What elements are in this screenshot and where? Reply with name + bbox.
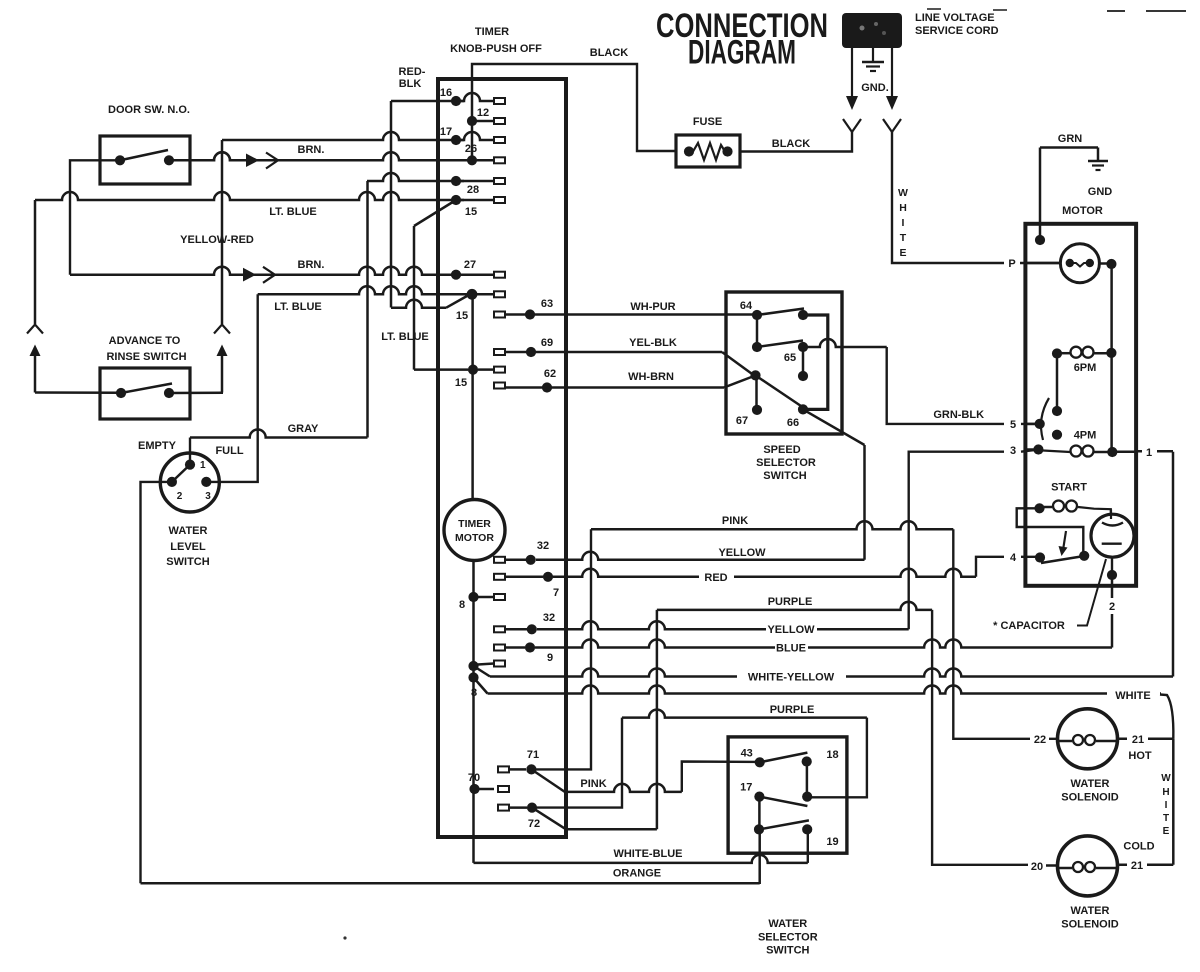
svg-text:32: 32 [537,540,549,552]
left riser to rinse switch [34,200,37,324]
title CONNECTION DIAGRAM [656,7,828,72]
ground symbol at motor [1088,148,1113,199]
capacitor pointer [993,559,1106,632]
svg-text:6PM: 6PM [1074,362,1097,374]
svg-text:17: 17 [440,126,452,138]
svg-text:1: 1 [200,460,206,471]
wire PINK timer 71 to water selector 43 [531,762,760,792]
terminal 32b wire YELLOW to motor 3 [494,445,1038,636]
svg-text:20: 20 [1031,861,1043,873]
wire motor P internal [1025,262,1060,265]
motor terminal 5 [1025,419,1044,429]
svg-text:WH-PUR: WH-PUR [630,301,675,313]
wire BLACK fuse to line connector [740,132,852,152]
wire GRN to motor [1035,133,1098,245]
speed selector vertical 64-65 [756,315,759,347]
terminal 15c [414,365,505,390]
svg-text:E: E [899,247,906,259]
svg-text:12: 12 [477,107,489,119]
svg-text:YELLOW-RED: YELLOW-RED [180,234,254,246]
service cord hot lead with down arrow [846,48,858,110]
svg-text:GND: GND [1088,186,1113,198]
svg-text:WHITE-BLUE: WHITE-BLUE [613,848,682,860]
svg-text:TIMER: TIMER [458,518,491,530]
svg-text:SELECTOR: SELECTOR [756,457,816,469]
svg-text:H: H [899,202,907,214]
terminal 17 wire from yellow-red riser [222,126,505,145]
svg-text:WHITE-YELLOW: WHITE-YELLOW [748,672,835,684]
yellow-red arrow to rinse switch [217,345,228,393]
left riser chevron [27,325,43,334]
timer box [438,26,566,837]
water selector contact 18b [802,792,812,802]
hot water solenoid [1058,709,1119,804]
svg-text:8: 8 [459,599,465,611]
svg-text:WATER: WATER [1071,778,1110,790]
wire WHITE line to motor terminal P [892,132,1060,270]
service cord neutral lead with down arrow [886,48,898,110]
left riser arrow [30,345,41,393]
svg-text:21: 21 [1131,860,1143,872]
svg-text:64: 64 [740,300,753,312]
svg-text:YELLOW: YELLOW [767,624,815,636]
motor START winding [1034,482,1110,516]
svg-text:LINE VOLTAGE: LINE VOLTAGE [915,12,995,24]
ground symbol at service cord [861,48,889,94]
speed selector row3 common [750,370,801,410]
water level switch [138,440,244,568]
terminal 63 wire WH-PUR to speed selector 64 [494,298,757,320]
label LT BLUE vertical riser [381,331,428,343]
svg-text:PURPLE: PURPLE [770,704,815,716]
svg-text:RINSE SWITCH: RINSE SWITCH [106,351,186,363]
svg-text:WH-BRN: WH-BRN [628,371,674,383]
svg-text:15: 15 [455,377,467,389]
terminal 62 wire WH-BRN [494,368,754,393]
svg-text:LEVEL: LEVEL [170,541,206,553]
capacitor [1091,510,1134,576]
wire PURPLE timer 72 to cold solenoid 20 [532,596,1058,873]
capacitor lead to 2 and BLUE [1107,570,1117,648]
svg-text:SPEED: SPEED [763,444,800,456]
svg-text:72: 72 [528,818,540,830]
svg-text:BLACK: BLACK [772,138,811,150]
svg-text:9: 9 [547,652,553,664]
svg-text:YEL-BLK: YEL-BLK [629,337,677,349]
svg-text:I: I [1165,800,1168,811]
wire hot solenoid 21 WHITE [1118,734,1174,762]
svg-text:P: P [1008,258,1015,270]
svg-text:GRN: GRN [1058,133,1083,145]
wire water level 2 to orange rail [141,482,172,883]
svg-text:H: H [1162,787,1169,798]
svg-text:YELLOW: YELLOW [718,547,766,559]
water selector switch box [728,737,847,957]
svg-text:PINK: PINK [722,515,748,527]
terminal 15b wire LT BLUE lower [258,286,505,313]
wire BLACK timer to service cord hot [472,47,676,151]
svg-text:TIMER: TIMER [475,26,509,38]
water selector terminal 43 [741,748,808,768]
svg-text:SERVICE CORD: SERVICE CORD [915,25,999,37]
svg-text:32: 32 [543,612,555,624]
svg-text:START: START [1051,482,1087,494]
water selector terminal 17b [754,820,809,884]
right margin WHITE vertical [1161,739,1173,865]
fuse F1 [676,116,740,167]
svg-text:COLD: COLD [1123,841,1154,853]
svg-text:HOT: HOT [1128,750,1152,762]
svg-text:SWITCH: SWITCH [763,470,806,482]
terminal 12 [467,107,505,126]
water selector terminal 17 [740,782,807,830]
wire cold solenoid 21 [1118,841,1174,873]
svg-text:I: I [902,217,905,229]
svg-text:GND.: GND. [861,82,889,94]
terminal 9 wire BLUE to capacitor [494,640,1112,665]
svg-text:5: 5 [1010,419,1016,431]
water selector terminal 19 [802,824,839,848]
svg-text:E: E [1163,826,1170,837]
svg-text:SOLENOID: SOLENOID [1061,792,1119,804]
timer inner vertical to timer motor [471,294,474,500]
connector chevron neutral side [883,119,901,132]
svg-text:15: 15 [465,206,477,218]
svg-text:DOOR SW. N.O.: DOOR SW. N.O. [108,104,190,116]
svg-text:RED-: RED- [399,66,426,78]
svg-text:BLUE: BLUE [776,643,806,655]
motor 6PM winding [1052,347,1117,374]
motor terminal 4 switch [1035,551,1089,563]
svg-text:21: 21 [1132,734,1144,746]
svg-text:WATER: WATER [1071,905,1110,917]
svg-text:71: 71 [527,749,539,761]
speed selector terminal 65 [784,342,808,381]
svg-text:WATER: WATER [768,918,807,930]
connector chevron hot side [843,119,861,132]
svg-text:17: 17 [740,782,752,794]
wire water level 1 to GRAY [190,423,368,465]
wire 15 from red-blk riser [391,296,468,322]
terminal 26 wire BRN from door switch [169,143,505,165]
svg-text:2: 2 [177,491,183,502]
svg-text:7: 7 [553,587,559,599]
svg-text:3: 3 [205,491,211,502]
wire rinse switch right [169,391,223,394]
rinse switch arrow connector [243,267,275,283]
speed selector terminal 64 [740,300,804,320]
svg-text:BLK: BLK [399,78,422,90]
advance to rinse switch [100,335,190,419]
svg-text:W: W [898,187,908,199]
wire door switch to arrow [169,152,246,160]
svg-text:27: 27 [464,259,476,271]
speed selector terminal 66 [787,404,865,445]
terminal 15a wire LT BLUE [35,192,505,226]
svg-text:16: 16 [440,87,452,99]
svg-text:RED: RED [704,572,727,584]
svg-text:MOTOR: MOTOR [1062,205,1103,217]
svg-text:70: 70 [468,772,480,784]
terminal 69 wire YEL-BLK [494,337,754,375]
terminal 28 wire from gray riser [367,173,505,196]
svg-text:65: 65 [784,352,796,364]
svg-text:BLACK: BLACK [590,47,629,59]
speed selector terminal 67 [736,405,762,427]
terminal 8b [468,661,505,672]
svg-text:FULL: FULL [215,445,243,457]
terminal 8a [459,592,505,611]
terminal 71 wire PINK to hot solenoid 22 [498,515,1058,775]
svg-text:DIAGRAM: DIAGRAM [688,34,796,72]
svg-text:PINK: PINK [580,778,606,790]
svg-text:4PM: 4PM [1074,430,1097,442]
cold water solenoid [1058,836,1119,931]
door switch N.O. [100,104,190,184]
terminal 7 wire RED to motor 4 [494,552,1040,599]
svg-text:LT. BLUE: LT. BLUE [269,206,316,218]
wire 65 to motor 5 GRN-BLK [803,339,1040,431]
svg-text:WHITE: WHITE [1115,690,1150,702]
svg-text:T: T [900,232,907,244]
motor internal vertical right [1110,264,1113,452]
motor start switch arrow [1059,531,1068,556]
svg-text:26: 26 [465,143,477,155]
scan artifacts [343,9,1186,940]
terminal 8c wire WHITE to hot solenoid 21 [468,672,1173,738]
svg-text:GRN-BLK: GRN-BLK [933,409,984,421]
svg-text:SWITCH: SWITCH [166,556,209,568]
yellow-red chevron [214,325,230,334]
svg-text:66: 66 [787,417,799,429]
wire water level 3 riser [206,294,257,482]
svg-text:KNOB-PUSH OFF: KNOB-PUSH OFF [450,43,542,55]
svg-text:SELECTOR: SELECTOR [758,932,818,944]
speed selector row2 [752,341,803,353]
speed selector contact row1 right [798,310,828,410]
terminal 16 [391,87,505,106]
svg-text:ADVANCE TO: ADVANCE TO [109,335,181,347]
svg-text:2: 2 [1109,601,1115,613]
motor centrifugal wiper arc [1041,398,1049,440]
timer motor [444,500,505,561]
wire WHITE-YELLOW to motor 1 [474,447,1174,684]
terminal 72 wire PURPLE to water selector 18b [498,704,867,830]
yellow-red riser [180,140,254,324]
svg-text:ORANGE: ORANGE [613,868,661,880]
svg-text:PURPLE: PURPLE [768,596,813,608]
svg-text:19: 19 [826,836,838,848]
svg-text:EMPTY: EMPTY [138,440,177,452]
svg-text:28: 28 [467,184,479,196]
svg-text:22: 22 [1034,734,1046,746]
gray riser to terminal 28 [366,181,369,438]
svg-text:3: 3 [1010,445,1016,457]
terminal 70 wire WHITE-BLUE to water selector 19 [468,772,808,863]
svg-text:SWITCH: SWITCH [766,945,809,957]
motor 4PM tap [1052,430,1096,442]
svg-text:63: 63 [541,298,553,310]
svg-text:T: T [1163,813,1169,824]
svg-text:BRN.: BRN. [298,259,325,271]
svg-text:18: 18 [826,749,838,761]
motor winding tap vertical [1052,354,1062,417]
svg-text:43: 43 [741,748,753,760]
water selector terminal 18 [802,749,839,797]
motor box [1025,205,1136,586]
svg-text:* CAPACITOR: * CAPACITOR [993,620,1065,632]
svg-text:LT. BLUE: LT. BLUE [274,301,321,313]
timer inner vertical node 12-26 [471,80,474,160]
motor start switch actuator loop [1017,508,1084,556]
terminal 27 wire BRN from rinse switch [70,259,505,280]
red-blk vertical riser [391,66,426,308]
svg-text:69: 69 [541,337,553,349]
motor run contact [1060,244,1116,283]
svg-text:FUSE: FUSE [693,116,722,128]
svg-text:LT. BLUE: LT. BLUE [381,331,428,343]
wire ORANGE water level 2 to water selector 17b [141,868,760,884]
line voltage service cord plug [842,12,999,48]
wire rinse switch left [35,391,121,394]
timer motor lower lead [472,561,475,790]
wire door switch left leg [70,160,120,274]
svg-text:BRN.: BRN. [298,144,325,156]
svg-text:67: 67 [736,415,748,427]
svg-text:1: 1 [1146,447,1152,459]
svg-text:W: W [1161,773,1171,784]
svg-text:62: 62 [544,368,556,380]
terminal 32a wire YELLOW to 66 riser [494,540,865,565]
speed selector switch box [726,292,842,482]
svg-text:MOTOR: MOTOR [455,532,494,544]
svg-text:4: 4 [1010,552,1017,564]
motor terminal 3 and 4PM winding [1025,444,1136,457]
svg-text:GRAY: GRAY [288,423,319,435]
svg-text:8: 8 [471,687,477,699]
svg-text:WATER: WATER [169,525,208,537]
wire 66 to yellow row riser [863,445,866,560]
svg-text:15: 15 [456,310,468,322]
door switch arrow connector [246,153,278,169]
svg-text:SOLENOID: SOLENOID [1061,919,1119,931]
lt-blue riser to terminal 15 row [413,226,416,370]
